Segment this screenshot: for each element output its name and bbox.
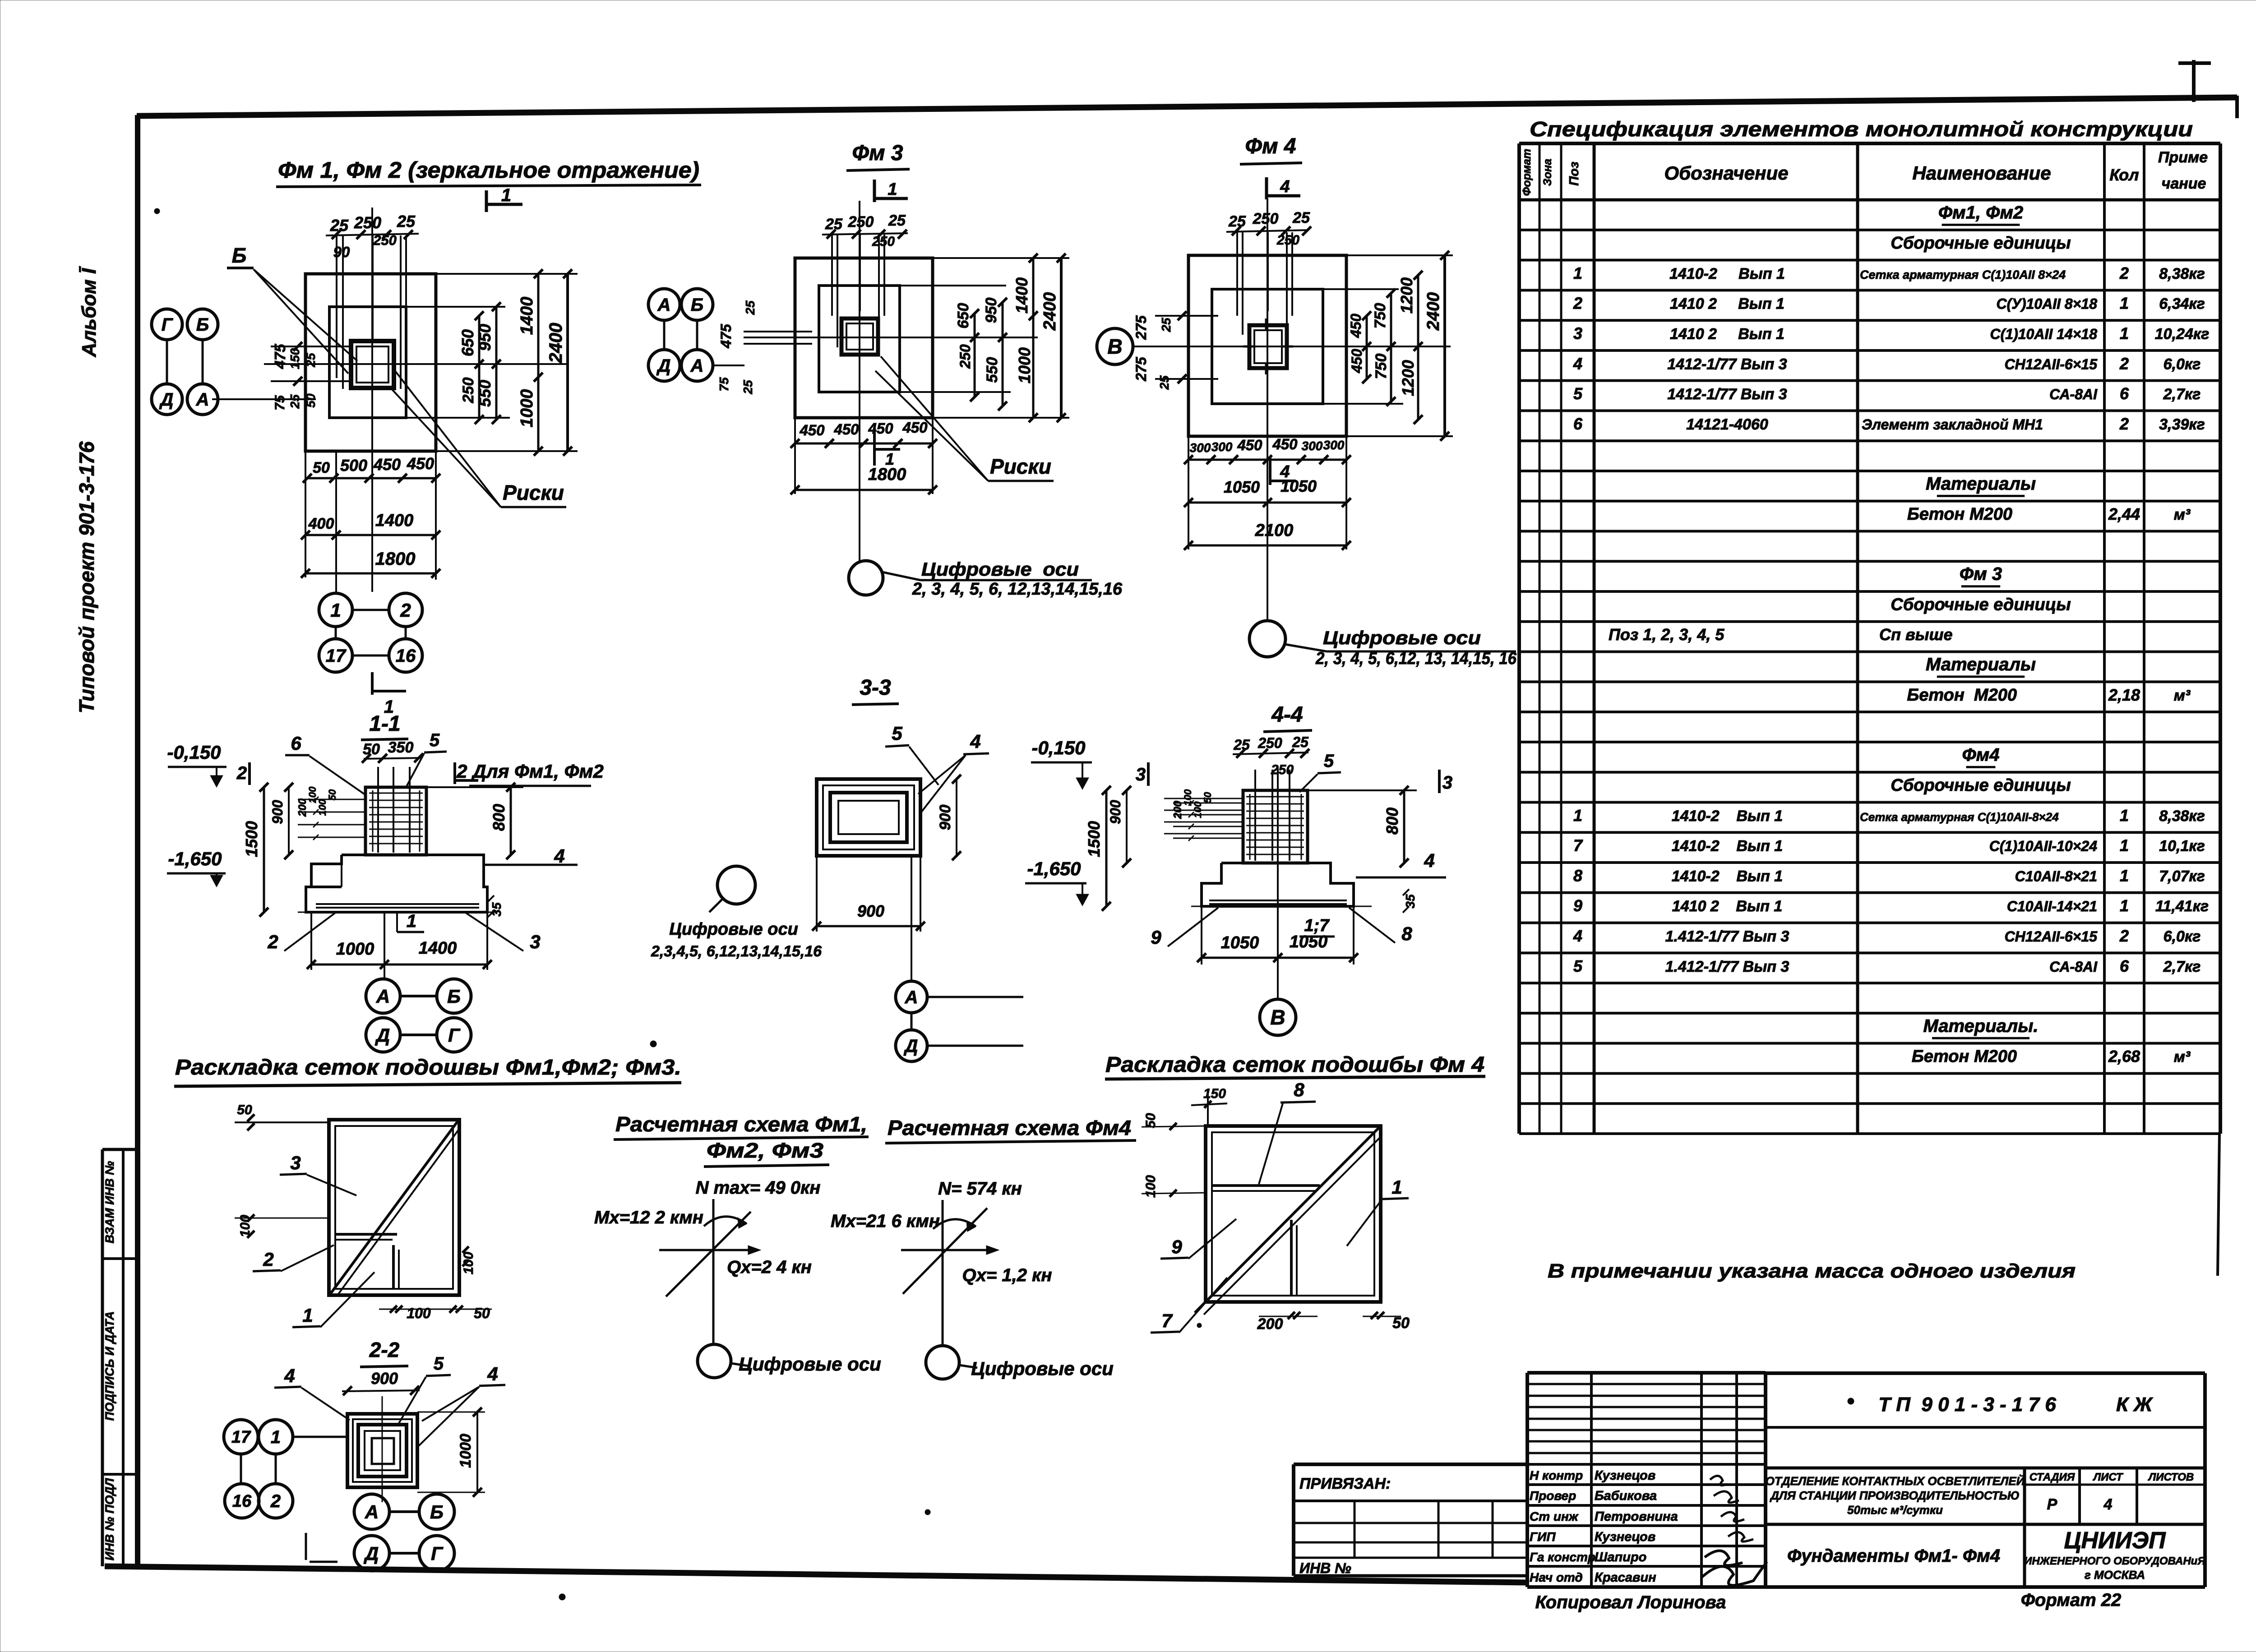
plan Fm1 column section xyxy=(351,341,394,388)
svg-text:ДЛЯ СТАНЦИИ ПРОИЗВОДИТЕЛЬНОСТЬ: ДЛЯ СТАНЦИИ ПРОИЗВОДИТЕЛЬНОСТЬЮ xyxy=(1770,1489,2020,1502)
svg-text:СТАДИЯ: СТАДИЯ xyxy=(2029,1471,2075,1483)
section 1-1 note 2 dlja Fm1 Fm2 xyxy=(455,761,604,786)
svg-text:А: А xyxy=(376,986,390,1007)
svg-text:Фундаменты Фм1- Фм4: Фундаменты Фм1- Фм4 xyxy=(1787,1546,2000,1566)
svg-text:9: 9 xyxy=(1171,1236,1182,1257)
svg-text:Р: Р xyxy=(2047,1496,2057,1513)
plan Fm4 middle step outline xyxy=(1212,289,1323,404)
svg-text:1410 2 Вып 1: 1410 2 Вып 1 xyxy=(1670,325,1784,342)
section 4-4 bottom dims 1050 1050 xyxy=(1197,906,1358,964)
svg-text:1: 1 xyxy=(2120,866,2129,885)
mesh layout Fm1 labels xyxy=(253,1152,374,1327)
section 4-4 flag 3 left xyxy=(1136,762,1148,786)
svg-text:Материалы: Материалы xyxy=(1926,655,2036,674)
svg-text:2: 2 xyxy=(267,931,278,952)
svg-text:275: 275 xyxy=(1133,315,1149,340)
svg-text:3: 3 xyxy=(530,931,540,952)
svg-text:Зона: Зона xyxy=(1541,159,1554,186)
svg-text:Риски: Риски xyxy=(503,481,564,504)
svg-text:В: В xyxy=(1107,335,1122,358)
svg-text:ИНВ № ПОДЛ: ИНВ № ПОДЛ xyxy=(103,1477,116,1560)
svg-text:2: 2 xyxy=(2119,264,2129,282)
svg-text:2,3,4,5, 6,12,13,14,15,16: 2,3,4,5, 6,12,13,14,15,16 xyxy=(651,943,822,960)
svg-text:Расчетная схема Фм1,: Расчетная схема Фм1, xyxy=(615,1112,867,1136)
svg-text:16: 16 xyxy=(232,1492,252,1511)
svg-text:1.412-1/77 Вып 3: 1.412-1/77 Вып 3 xyxy=(1665,958,1789,975)
mesh layout Fm1 rectangle xyxy=(329,1120,459,1295)
section 4-4 right dim 800 xyxy=(1308,786,1417,868)
mesh layout Fm1 diagonal xyxy=(331,1121,459,1295)
svg-text:Мх=21 6 кмн: Мх=21 6 кмн xyxy=(831,1211,940,1231)
svg-text:Д: Д xyxy=(364,1543,379,1564)
svg-text:450: 450 xyxy=(1348,314,1364,338)
svg-text:С10АΙΙ-8×21: С10АΙΙ-8×21 xyxy=(2015,868,2097,884)
svg-text:Б: Б xyxy=(196,315,209,335)
plan Fm3 axis circle with label xyxy=(849,558,1123,599)
section 2-2 labels 4 with leaders xyxy=(274,1363,505,1446)
calc scheme Fm4 title xyxy=(885,1116,1136,1143)
svg-text:2400: 2400 xyxy=(1424,292,1443,331)
svg-text:Сетка арматурная С(1)10АΙΙ 8×2: Сетка арматурная С(1)10АΙΙ 8×24 xyxy=(1860,268,2066,281)
section 4-4 base mesh lines xyxy=(1191,900,1372,906)
svg-text:Бетон М200: Бетон М200 xyxy=(1912,1047,2017,1066)
svg-text:1: 1 xyxy=(330,600,341,621)
svg-text:1000: 1000 xyxy=(457,1434,474,1468)
svg-text:1050: 1050 xyxy=(1221,933,1259,952)
svg-text:3: 3 xyxy=(1573,324,1582,342)
svg-text:1410-2 Вып 1: 1410-2 Вып 1 xyxy=(1672,808,1783,825)
svg-text:Спецификация элементов монолит: Спецификация элементов монолитной констр… xyxy=(1530,117,2193,141)
section 4-4 step outline xyxy=(1202,863,1354,906)
svg-text:35: 35 xyxy=(1403,894,1417,909)
svg-text:1400: 1400 xyxy=(518,297,536,335)
section 1-1 label 1 xyxy=(397,911,424,932)
plan Fm4 right dimension lines xyxy=(1323,251,1453,441)
plan Fm4 section flag 4 bottom xyxy=(1270,457,1296,485)
mesh layout Fm4 diagonal xyxy=(1195,1128,1381,1315)
svg-text:750: 750 xyxy=(1373,354,1390,379)
svg-text:1-1: 1-1 xyxy=(369,712,400,736)
svg-text:450: 450 xyxy=(902,419,928,436)
calc scheme Fm1 title xyxy=(614,1112,869,1167)
plan Fm1 right dimension lines xyxy=(406,269,578,456)
svg-text:200: 200 xyxy=(1257,1315,1283,1333)
section 3-3 title xyxy=(852,676,899,705)
svg-text:Нач отд: Нач отд xyxy=(1530,1570,1583,1584)
svg-text:Копировал Лоринова: Копировал Лоринова xyxy=(1535,1592,1726,1612)
svg-text:1500: 1500 xyxy=(1085,821,1103,857)
plan Fm3 top dimensions xyxy=(822,212,908,249)
svg-text:2400: 2400 xyxy=(1040,292,1059,331)
svg-text:8: 8 xyxy=(1401,923,1412,944)
svg-text:300: 300 xyxy=(1190,441,1211,455)
svg-text:2: 2 xyxy=(270,1491,281,1511)
calc scheme Fm1 M moment xyxy=(594,1208,747,1228)
section 4-4 label 4 xyxy=(1356,850,1446,877)
svg-text:150: 150 xyxy=(1203,1086,1226,1101)
title block organization xyxy=(2024,1527,2205,1582)
svg-text:250: 250 xyxy=(957,344,973,369)
section 3-3 axis circle with label xyxy=(651,866,822,960)
svg-text:7: 7 xyxy=(1161,1310,1173,1331)
svg-text:ОТДЕЛЕНИЕ КОНТАКТНЫХ ОСВЕТЛИТЕ: ОТДЕЛЕНИЕ КОНТАКТНЫХ ОСВЕТЛИТЕЛЕЙ xyxy=(1766,1474,2025,1488)
svg-text:А: А xyxy=(690,356,704,376)
svg-text:9: 9 xyxy=(1573,896,1582,915)
plan Fm4 anchor bolt projection lines xyxy=(1237,232,1292,335)
svg-text:Цифровые оси: Цифровые оси xyxy=(921,558,1079,580)
svg-text:Бабикова: Бабикова xyxy=(1595,1489,1657,1503)
plan Fm4 title xyxy=(1240,134,1302,164)
svg-text:А: А xyxy=(657,295,671,315)
svg-text:2,44: 2,44 xyxy=(2108,505,2140,523)
svg-text:Сетка арматурная С(1)10АΙΙ-8×2: Сетка арматурная С(1)10АΙΙ-8×24 xyxy=(1860,810,2059,824)
plan Fm1 section flag 1 top xyxy=(486,185,522,212)
svg-text:1: 1 xyxy=(1573,806,1582,825)
svg-text:800: 800 xyxy=(490,804,508,831)
svg-text:5: 5 xyxy=(892,723,902,744)
svg-text:950: 950 xyxy=(983,298,1000,323)
svg-text:2: 2 xyxy=(1573,294,1582,313)
plan Fm3 left axis circles xyxy=(648,289,744,381)
section 1-1 column outline xyxy=(365,787,426,855)
title block sheet name xyxy=(1787,1546,2000,1566)
svg-text:1412-1/77 Вып 3: 1412-1/77 Вып 3 xyxy=(1667,386,1787,403)
svg-text:750: 750 xyxy=(1372,303,1389,329)
svg-text:100: 100 xyxy=(317,799,328,816)
svg-text:N= 574 кн: N= 574 кн xyxy=(938,1179,1022,1199)
title block main signature rows xyxy=(1527,1464,1766,1587)
svg-text:450: 450 xyxy=(1272,436,1298,452)
svg-text:5: 5 xyxy=(1324,751,1334,771)
svg-text:6,0кг: 6,0кг xyxy=(2164,355,2201,373)
svg-text:25: 25 xyxy=(288,394,302,409)
plan Fm1 label B with leaders xyxy=(227,244,357,374)
section 1-1 dim 35 xyxy=(488,895,504,917)
section 2-2 title xyxy=(360,1338,408,1367)
svg-text:Раскладка сеток подошвы Фм1,Фм: Раскладка сеток подошвы Фм1,Фм2; Фм3. xyxy=(175,1056,681,1080)
plan Fm4 centerlines xyxy=(1133,198,1451,621)
svg-text:-1,650: -1,650 xyxy=(1027,858,1081,879)
svg-text:250: 250 xyxy=(460,378,477,404)
svg-text:Ст инж: Ст инж xyxy=(1530,1509,1579,1523)
svg-text:650: 650 xyxy=(955,303,972,329)
svg-text:С(1)10АΙΙ 14×18: С(1)10АΙΙ 14×18 xyxy=(1990,326,2098,342)
plan Fm4 section flag 4 top xyxy=(1267,177,1300,199)
svg-text:14121-4060: 14121-4060 xyxy=(1686,416,1768,433)
svg-text:900: 900 xyxy=(937,805,954,831)
svg-text:ГИП: ГИП xyxy=(1530,1530,1556,1544)
svg-text:м³: м³ xyxy=(2174,1048,2191,1066)
svg-text:50: 50 xyxy=(304,393,318,408)
section 1-1 level mark -0.150 xyxy=(167,742,227,787)
svg-text:Н контр: Н контр xyxy=(1530,1468,1583,1482)
svg-text:1: 1 xyxy=(2120,806,2129,825)
svg-text:4-4: 4-4 xyxy=(1271,703,1303,727)
svg-text:50: 50 xyxy=(1202,792,1213,803)
section 4-4 left dims 1500 900 xyxy=(1085,786,1131,911)
svg-text:С(1)10АΙΙ-10×24: С(1)10АΙΙ-10×24 xyxy=(1989,838,2097,854)
plan Fm1 left small dims xyxy=(212,342,352,411)
svg-text:г МОСКВА: г МОСКВА xyxy=(2085,1568,2145,1582)
svg-text:Б: Б xyxy=(447,986,461,1007)
svg-text:50: 50 xyxy=(1143,1113,1158,1128)
plan Fm4 top dimensions xyxy=(1226,209,1311,248)
svg-text:С(У)10АΙΙ 8×18: С(У)10АΙΙ 8×18 xyxy=(1996,296,2097,312)
section 1-1 labels 2 3 with leaders xyxy=(267,912,540,952)
svg-text:Б: Б xyxy=(691,295,703,315)
section 4-4 level mark -1.650 xyxy=(1025,858,1089,906)
svg-text:Материалы: Материалы xyxy=(1926,474,2036,494)
spec table right edge tail xyxy=(2218,1134,2219,1276)
calc scheme Fm4 Q load xyxy=(962,1265,1052,1285)
svg-text:Г: Г xyxy=(162,315,174,335)
section 4-4 top dims xyxy=(1233,734,1309,777)
svg-text:1410 2 Вып 1: 1410 2 Вып 1 xyxy=(1672,898,1783,915)
spec table title xyxy=(1530,117,2193,141)
svg-text:25: 25 xyxy=(1233,737,1250,753)
svg-text:3: 3 xyxy=(290,1152,300,1173)
svg-text:ИНВ №: ИНВ № xyxy=(1299,1560,1351,1576)
plan Fm3 column section xyxy=(841,318,878,355)
svg-text:25: 25 xyxy=(741,380,755,395)
svg-text:25: 25 xyxy=(1157,375,1171,390)
section 4-4 column outline xyxy=(1243,790,1308,863)
svg-text:4: 4 xyxy=(554,845,564,867)
svg-text:3: 3 xyxy=(1136,765,1146,784)
plan Fm3 anchor bolt projection lines xyxy=(832,235,884,347)
svg-text:Б: Б xyxy=(430,1501,444,1523)
svg-text:Д: Д xyxy=(159,390,174,410)
svg-text:50: 50 xyxy=(474,1305,490,1321)
svg-text:-0,150: -0,150 xyxy=(167,742,221,763)
section 4-4 slope label 1:7 xyxy=(1299,916,1335,937)
svg-text:950: 950 xyxy=(476,324,494,351)
svg-text:6,34кг: 6,34кг xyxy=(2159,295,2205,313)
svg-text:6,0кг: 6,0кг xyxy=(2164,928,2201,945)
svg-text:1: 1 xyxy=(2120,836,2129,855)
svg-text:550: 550 xyxy=(476,380,494,407)
svg-text:Сборочные единицы: Сборочные единицы xyxy=(1891,234,2071,253)
svg-text:6: 6 xyxy=(2120,957,2129,975)
section 1-1 top dims 50 350 xyxy=(362,739,423,763)
svg-text:Цифровые оси: Цифровые оси xyxy=(739,1353,881,1375)
plan Fm3 riski label with leaders xyxy=(875,356,1054,481)
svg-text:Га констр: Га констр xyxy=(1530,1550,1595,1564)
svg-text:2: 2 xyxy=(236,763,247,783)
plan Fm3 middle step outline xyxy=(819,286,900,392)
svg-text:2: 2 xyxy=(400,600,411,621)
svg-text:450: 450 xyxy=(1349,349,1365,374)
svg-text:Д: Д xyxy=(904,1036,918,1056)
svg-text:ЛИСТ: ЛИСТ xyxy=(2093,1471,2124,1483)
svg-text:1: 1 xyxy=(302,1305,313,1326)
plan Fm4 axis circle V xyxy=(1097,328,1188,365)
spec table header xyxy=(1521,149,2208,196)
svg-text:900: 900 xyxy=(1107,800,1123,824)
svg-text:450: 450 xyxy=(407,454,434,473)
svg-text:900: 900 xyxy=(269,800,286,824)
plan Fm1 bottom axis circles xyxy=(319,593,422,672)
svg-text:А: А xyxy=(905,988,918,1007)
svg-text:1412-1/77 Вып 3: 1412-1/77 Вып 3 xyxy=(1667,355,1787,373)
section 2-2 nested squares xyxy=(347,1414,417,1487)
svg-text:8: 8 xyxy=(1294,1079,1304,1100)
section 1-1 column rebar xyxy=(369,767,423,853)
svg-text:1410-2 Вып 1: 1410-2 Вып 1 xyxy=(1669,265,1785,282)
svg-text:Альбом Ī: Альбом Ī xyxy=(78,266,100,357)
svg-text:Кузнецов: Кузнецов xyxy=(1595,1468,1655,1483)
svg-text:50: 50 xyxy=(327,789,338,800)
mesh layout Fm4 labels xyxy=(1151,1079,1409,1333)
calc scheme Fm1 axes cross xyxy=(659,1199,761,1344)
section 4-4 title xyxy=(1263,703,1312,732)
svg-text:6: 6 xyxy=(1573,415,1583,433)
plan Fm3 right dimension lines xyxy=(900,254,1069,422)
registration T mark top right xyxy=(2178,60,2211,102)
svg-text:17: 17 xyxy=(231,1428,251,1447)
spec table rows Fm3 xyxy=(1609,564,2191,705)
mesh layout Fm4 rectangle xyxy=(1206,1126,1381,1302)
section 2-2 top dim 900 xyxy=(342,1369,420,1395)
svg-text:1400: 1400 xyxy=(375,511,414,530)
svg-text:4: 4 xyxy=(2103,1496,2113,1513)
svg-text:2: 2 xyxy=(2119,415,2129,433)
svg-text:50: 50 xyxy=(363,741,380,758)
svg-text:1: 1 xyxy=(2120,896,2129,915)
mesh layout Fm4 title xyxy=(1105,1053,1485,1079)
svg-text:В примечании указана масса одн: В примечании указана масса одного издели… xyxy=(1548,1260,2076,1282)
calc scheme Fm4 axes cross xyxy=(901,1200,999,1344)
svg-text:2,7кг: 2,7кг xyxy=(2163,958,2201,975)
calc scheme Fm1 axis circle xyxy=(698,1344,881,1378)
svg-text:Д: Д xyxy=(375,1024,390,1046)
svg-text:Кол: Кол xyxy=(2109,166,2139,184)
svg-text:7,07кг: 7,07кг xyxy=(2159,868,2205,885)
small corner mark xyxy=(306,1533,337,1562)
svg-text:475: 475 xyxy=(272,344,288,369)
svg-text:8,38кг: 8,38кг xyxy=(2159,265,2205,282)
svg-text:2,68: 2,68 xyxy=(2108,1047,2140,1066)
plan Fm3 bottom dimensions xyxy=(791,418,937,494)
svg-text:300: 300 xyxy=(1211,440,1233,454)
title block copied by xyxy=(1535,1592,1726,1612)
section 1-1 label 5 xyxy=(406,730,447,787)
svg-text:N max= 49 0кн: N max= 49 0кн xyxy=(696,1178,821,1198)
section 2-2 dim 1000 xyxy=(417,1407,485,1497)
section 1-1 left small dims cluster xyxy=(296,786,366,840)
section 1-1 axis circles xyxy=(366,979,471,1052)
svg-text:Qх=2 4 кн: Qх=2 4 кн xyxy=(727,1257,812,1277)
svg-text:1050: 1050 xyxy=(1290,932,1328,951)
section 4-4 left small dims cluster xyxy=(1172,789,1244,841)
svg-text:450: 450 xyxy=(833,421,859,438)
svg-text:Элемент закладной МН1: Элемент закладной МН1 xyxy=(1862,416,2043,433)
section 3-3 axis circles A D xyxy=(896,856,1023,1061)
svg-text:8,38кг: 8,38кг xyxy=(2159,808,2205,825)
svg-text:4: 4 xyxy=(1573,354,1582,373)
svg-text:Фм 3: Фм 3 xyxy=(852,141,903,165)
svg-text:2,18: 2,18 xyxy=(2108,686,2140,704)
svg-text:3,39кг: 3,39кг xyxy=(2159,416,2205,433)
svg-text:25: 25 xyxy=(743,300,757,315)
section 3-3 label 5 xyxy=(885,723,938,785)
svg-text:10,1кг: 10,1кг xyxy=(2159,838,2205,855)
plan Fm1 outer footing outline xyxy=(305,274,436,451)
plan Fm1 Fm2 title xyxy=(276,157,701,187)
plan Fm1 left axis circles xyxy=(152,309,218,415)
svg-text:1500: 1500 xyxy=(242,821,261,857)
svg-text:25: 25 xyxy=(1292,209,1310,226)
svg-text:Мх=12 2 кмн: Мх=12 2 кмн xyxy=(594,1208,703,1227)
svg-text:Риски: Риски xyxy=(990,455,1051,478)
svg-text:м³: м³ xyxy=(2174,506,2191,523)
svg-text:4: 4 xyxy=(487,1363,498,1384)
svg-text:1410-2 Вып 1: 1410-2 Вып 1 xyxy=(1672,868,1783,885)
section 1-1 title xyxy=(361,712,408,740)
svg-text:2 Для Фм1, Фм2: 2 Для Фм1, Фм2 xyxy=(456,761,604,782)
svg-text:25: 25 xyxy=(1228,213,1246,230)
svg-text:2,7кг: 2,7кг xyxy=(2163,386,2201,403)
svg-text:650: 650 xyxy=(458,329,477,356)
svg-text:Формат: Формат xyxy=(1521,149,1533,196)
svg-text:СА-8АΙ: СА-8АΙ xyxy=(2049,959,2098,975)
svg-text:Провер: Провер xyxy=(1530,1489,1576,1503)
title block right part frame xyxy=(1766,1373,2205,1587)
plan Fm1 top dimensions xyxy=(326,212,419,260)
svg-text:Т П 9 0 1 - 3 - 1 7 6: Т П 9 0 1 - 3 - 1 7 6 xyxy=(1878,1394,2056,1416)
svg-text:Типовой проект 901-3-176: Типовой проект 901-3-176 xyxy=(75,441,98,713)
title block stadia list columns xyxy=(2025,1468,2205,1524)
scan specks xyxy=(154,208,1854,1600)
svg-text:1: 1 xyxy=(271,1427,281,1447)
svg-text:Бетон М200: Бетон М200 xyxy=(1907,686,2017,705)
svg-text:Фм 1, Фм 2 (зеркальное отражен: Фм 1, Фм 2 (зеркальное отражение) xyxy=(278,157,699,183)
plan Fm4 bottom dimensions xyxy=(1184,436,1351,550)
svg-text:1400: 1400 xyxy=(1012,277,1031,314)
svg-text:5: 5 xyxy=(1573,384,1583,403)
svg-text:16: 16 xyxy=(396,646,416,666)
svg-text:800: 800 xyxy=(1383,808,1401,835)
svg-text:С10АΙΙ-14×21: С10АΙΙ-14×21 xyxy=(2007,898,2097,914)
section 3-3 column squares xyxy=(817,779,920,856)
section 3-3 dim 900 right xyxy=(937,775,961,860)
title block object name xyxy=(1766,1474,2025,1517)
svg-text:ЦНИИЭП: ЦНИИЭП xyxy=(2064,1527,2166,1554)
svg-text:3: 3 xyxy=(1442,773,1452,793)
svg-text:1: 1 xyxy=(1573,264,1582,282)
svg-text:1000: 1000 xyxy=(518,389,536,428)
svg-text:Б: Б xyxy=(232,244,247,267)
calc scheme Fm4 M moment xyxy=(831,1211,976,1232)
svg-text:1000: 1000 xyxy=(336,940,374,959)
title block signatures squiggles xyxy=(1702,1476,1767,1585)
svg-text:Наименование: Наименование xyxy=(1912,162,2051,184)
svg-text:Шапиро: Шапиро xyxy=(1595,1550,1646,1564)
calc scheme Fm1 Q load xyxy=(727,1257,812,1277)
svg-text:Цифровые оси: Цифровые оси xyxy=(1323,627,1481,648)
svg-text:Сборочные единицы: Сборочные единицы xyxy=(1891,776,2071,795)
svg-text:СН12АΙΙ-6×15: СН12АΙΙ-6×15 xyxy=(2005,356,2098,372)
mesh layout Fm1 inner dividers xyxy=(335,1234,399,1289)
section 2-2 axis circles A B D G xyxy=(354,1494,454,1571)
svg-text:2: 2 xyxy=(263,1249,273,1270)
svg-text:1410-2 Вып 1: 1410-2 Вып 1 xyxy=(1672,838,1783,855)
svg-text:2: 2 xyxy=(2119,354,2129,373)
svg-text:4: 4 xyxy=(284,1365,295,1386)
svg-text:475: 475 xyxy=(718,323,734,349)
mesh layout Fm4 left dims 50 100 xyxy=(1142,1113,1206,1198)
plan Fm3 title xyxy=(846,141,910,171)
